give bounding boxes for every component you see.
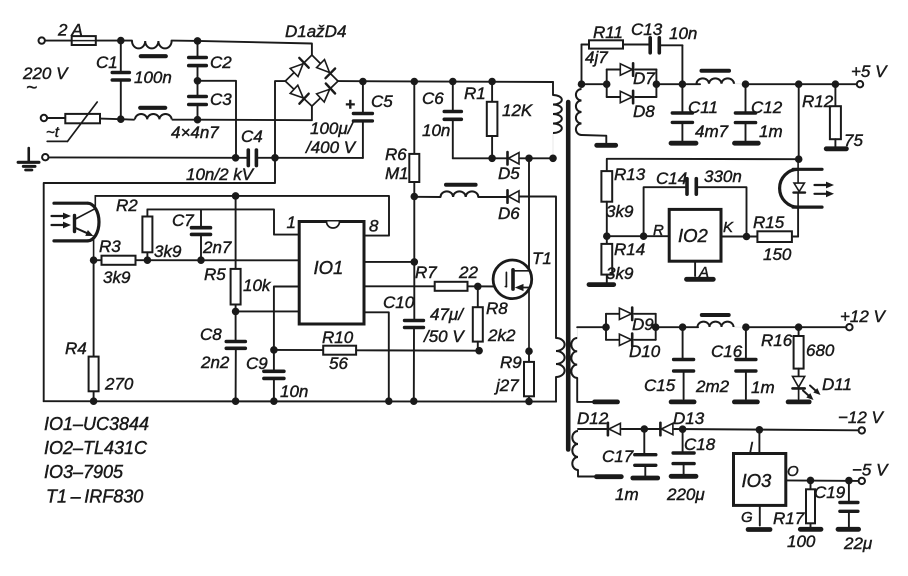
- node FB corner: [795, 155, 803, 163]
- svg-text:2n7: 2n7: [202, 238, 232, 257]
- transformer -12V winding: [572, 429, 578, 470]
- inductor L3 5V choke: [697, 78, 746, 84]
- wire chassis line: [49, 156, 236, 158]
- capacitor C2: [189, 41, 233, 81]
- label +12V: [840, 307, 887, 326]
- svg-text:D1ažD4: D1ažD4: [285, 22, 346, 41]
- ground bar C19: [838, 527, 859, 532]
- legend line 2: [44, 438, 148, 458]
- resistor R17 100: [773, 480, 816, 551]
- core bar choke bottom: [140, 106, 165, 110]
- node D7D8 left: [603, 80, 611, 88]
- core bar L4: [702, 313, 729, 317]
- node fuse/C1 junction: [117, 37, 125, 45]
- svg-text:3k9: 3k9: [606, 202, 634, 221]
- pin 1 label: [287, 213, 296, 232]
- node R6 top: [411, 78, 419, 86]
- resistor R14 3k9: [601, 236, 645, 283]
- svg-text:C3: C3: [210, 90, 232, 109]
- svg-text:C13: C13: [631, 20, 663, 39]
- svg-text:C1: C1: [96, 53, 118, 72]
- node R5 bottom RT/CT: [232, 308, 240, 316]
- wire D7D8 right stub: [655, 70, 657, 98]
- wire primary ground rail: [44, 400, 556, 402]
- node C19 top: [845, 477, 853, 485]
- node FB takeoff: [795, 80, 803, 88]
- inductor L2 Vcc choke: [414, 191, 507, 197]
- ground bar C11: [671, 141, 696, 146]
- svg-text:T1 – IRF830: T1 – IRF830: [46, 487, 143, 507]
- svg-text:D7: D7: [633, 69, 655, 88]
- svg-text:D9: D9: [632, 315, 654, 334]
- node R8 top: [474, 283, 482, 291]
- node C6 top: [449, 78, 457, 86]
- diode D5: [498, 152, 520, 183]
- svg-text:−5 V: −5 V: [852, 461, 889, 480]
- svg-text:R17: R17: [773, 509, 805, 528]
- svg-text:330n: 330n: [704, 167, 742, 186]
- ground chassis symbol: [18, 148, 39, 170]
- resistor R3 3k9: [99, 237, 136, 287]
- wire LED cathode: [797, 207, 799, 237]
- svg-text:100μ/: 100μ/: [310, 119, 355, 138]
- terminal +12V: [846, 324, 852, 330]
- wire top AC to bridge: [198, 41, 312, 55]
- wire OUT pin to R7: [364, 285, 435, 287]
- wire 12V node to rect: [577, 326, 606, 328]
- svg-text:2k2: 2k2: [487, 326, 516, 345]
- wire FB vertical: [798, 84, 800, 159]
- capacitor C10 47u/50V: [383, 262, 465, 401]
- svg-text:C7: C7: [172, 211, 194, 230]
- capacitor C4 10n/2kV: [186, 127, 275, 184]
- diode D12: [577, 409, 620, 435]
- svg-text:R11: R11: [593, 23, 623, 42]
- svg-text:2 A: 2 A: [57, 21, 83, 40]
- wire R5 feed: [235, 196, 237, 269]
- resistor R2 3k9: [116, 196, 182, 261]
- transformer core: [566, 102, 571, 450]
- wire IO3 input pin: [758, 430, 760, 454]
- capacitor C18 220u: [666, 429, 716, 504]
- svg-text:3k9: 3k9: [606, 264, 634, 283]
- svg-text:D11: D11: [822, 375, 852, 394]
- wire opto collector to A: [95, 195, 235, 197]
- capacitor C16 1m: [711, 327, 775, 399]
- wire RTCT pin: [236, 310, 300, 312]
- svg-text:3k9: 3k9: [103, 268, 131, 287]
- svg-text:R15: R15: [753, 213, 785, 232]
- svg-text:D5: D5: [498, 164, 520, 183]
- node C7 bottom: [197, 256, 205, 264]
- resistor R8 2k2: [473, 286, 516, 350]
- capacitor C17 1m: [602, 429, 656, 504]
- node C4 left junction: [232, 154, 240, 162]
- node R3 left: [90, 256, 98, 264]
- node R13 R14 junction: [603, 232, 611, 240]
- svg-text:R1: R1: [464, 84, 486, 103]
- resistor R5 10k: [204, 265, 272, 311]
- pin label I: [749, 439, 753, 456]
- svg-text:G: G: [741, 509, 753, 526]
- transformer feedback winding: [556, 338, 565, 377]
- svg-text:150: 150: [763, 245, 792, 264]
- svg-text:+5 V: +5 V: [851, 62, 888, 81]
- wire winding to D12: [578, 428, 608, 430]
- resistor R10 56: [274, 328, 479, 373]
- node R1 top: [488, 78, 496, 86]
- svg-text:R2: R2: [116, 196, 138, 215]
- svg-text:~: ~: [26, 78, 37, 99]
- wire FB divider line: [94, 259, 300, 261]
- wire -12V winding gnd: [578, 470, 596, 477]
- capacitor C1 100n: [96, 41, 172, 120]
- input terminal N (bottom): [41, 115, 47, 121]
- legend line 4: [46, 487, 143, 507]
- IC IO1 UC3844 box: [299, 222, 364, 325]
- transformer primary winding: [553, 95, 562, 158]
- wire D9D10 right stub: [655, 314, 657, 340]
- resistor R9 j27: [494, 351, 534, 401]
- wire D9D10 left stub: [605, 314, 607, 340]
- diode D10: [606, 334, 661, 361]
- legend line 1: [44, 414, 149, 434]
- label T1: [532, 249, 552, 268]
- terminal -5V: [859, 478, 865, 484]
- pin label R: [653, 222, 664, 239]
- ground bar IO2 A: [687, 277, 714, 282]
- wire bridge plus rail: [338, 81, 553, 95]
- wire D13 to rail: [674, 429, 858, 430]
- node C15 top: [679, 323, 687, 331]
- wire choke to C3 node: [173, 119, 198, 121]
- svg-text:56: 56: [329, 354, 348, 373]
- capacitor C14 330n: [644, 167, 747, 237]
- svg-text:680: 680: [806, 341, 835, 360]
- wire K pin line: [721, 236, 757, 238]
- node T1 source junction: [525, 347, 533, 355]
- thermistor -t: [46, 102, 100, 141]
- node R16 top: [795, 323, 803, 331]
- svg-text:10n: 10n: [422, 121, 450, 140]
- svg-text:1m: 1m: [751, 378, 775, 397]
- resistor R4 270: [65, 260, 134, 401]
- svg-text:K: K: [723, 219, 734, 236]
- node thermistor/C1 junction: [117, 115, 125, 123]
- diode D13: [660, 409, 704, 435]
- node C18 top: [679, 425, 687, 433]
- ground bar C18: [671, 474, 696, 479]
- node D7D8 right: [653, 80, 661, 88]
- svg-text:~t: ~t: [46, 124, 60, 141]
- svg-text:C9: C9: [246, 354, 268, 373]
- resistor R11 4j7: [582, 23, 649, 84]
- wire choke to C2 node: [172, 40, 198, 42]
- node C2 top: [194, 37, 202, 45]
- node D5 anode / drain: [525, 155, 533, 163]
- capacitor C9 10n: [246, 350, 308, 401]
- svg-text:10n/2 kV: 10n/2 kV: [186, 165, 255, 184]
- svg-text:10k: 10k: [243, 276, 272, 295]
- svg-text:D10: D10: [629, 342, 661, 361]
- input terminal L (top): [39, 37, 45, 43]
- svg-text:C18: C18: [684, 435, 716, 454]
- svg-text:R: R: [653, 222, 664, 239]
- wire G pin: [759, 505, 761, 525]
- capacitor C19 22u: [814, 481, 873, 553]
- svg-text:D12: D12: [577, 409, 609, 428]
- resistor R7 22: [415, 263, 505, 291]
- svg-text:O: O: [787, 463, 799, 480]
- svg-text:220μ: 220μ: [666, 485, 705, 504]
- svg-text:−12 V: −12 V: [838, 408, 885, 427]
- wire bridge minus out: [275, 81, 285, 158]
- node C12 top: [742, 80, 750, 88]
- optocoupler phototransistor: [52, 196, 99, 260]
- pin label K: [723, 219, 734, 236]
- svg-text:IO3–7905: IO3–7905: [44, 462, 124, 482]
- capacitor C8 2n2: [200, 311, 245, 401]
- svg-text:R6: R6: [385, 145, 407, 164]
- node C4 right / bridge minus: [271, 154, 279, 162]
- wire pin1 comp line: [147, 209, 299, 234]
- svg-text:100: 100: [787, 532, 816, 551]
- label +5V: [851, 62, 888, 81]
- pin label O: [787, 463, 799, 480]
- wire top AC line: [45, 40, 121, 42]
- core bar L2: [446, 183, 476, 187]
- core bar L3: [702, 69, 730, 73]
- svg-text:10n: 10n: [280, 382, 308, 401]
- capacitor C12 1m: [735, 84, 782, 141]
- svg-text:22: 22: [458, 263, 478, 282]
- ground bar C15: [671, 399, 694, 404]
- node R2 bottom: [144, 256, 152, 264]
- node R4 gnd: [90, 397, 98, 405]
- wire D7D8 left stub: [606, 70, 608, 98]
- node C8 gnd: [232, 397, 240, 405]
- svg-text:C11: C11: [688, 98, 718, 117]
- resistor R16 680: [761, 327, 835, 376]
- svg-text:C17: C17: [602, 447, 634, 466]
- wire C1col: [121, 118, 134, 121]
- wire 5V rail: [746, 83, 857, 85]
- wire D5 clamp line: [453, 157, 553, 159]
- wire Vref to pin8: [236, 196, 389, 236]
- ground bar C17: [633, 476, 658, 481]
- resistor R13 3k9: [601, 165, 645, 236]
- capacitor C13 10n: [631, 20, 697, 84]
- svg-text:R5: R5: [204, 265, 226, 284]
- wire CS pin branch: [274, 287, 299, 350]
- wire HV minus down-left: [44, 158, 275, 401]
- IC IO3 7905 box: [734, 454, 786, 506]
- svg-text:+12 V: +12 V: [840, 307, 887, 326]
- svg-text:8: 8: [369, 217, 379, 236]
- node IO3 input: [756, 426, 764, 434]
- transformer +5V winding: [576, 84, 582, 135]
- node R9 bottom: [525, 398, 533, 406]
- svg-text:IO2–TL431C: IO2–TL431C: [44, 438, 148, 458]
- capacitor C5 100u/400V: [305, 82, 393, 158]
- node R17 top: [807, 477, 815, 485]
- inductor L1a common-mode choke top winding: [132, 41, 172, 48]
- label -12V: [838, 408, 885, 427]
- svg-text:R14: R14: [614, 240, 645, 259]
- svg-text:R16: R16: [761, 331, 793, 350]
- wire Vcc vertical: [413, 197, 415, 262]
- svg-text:C10: C10: [383, 293, 415, 312]
- ground bar C12: [735, 141, 759, 146]
- node C2/C3 midpoint: [194, 77, 202, 85]
- node C14 right branch: [743, 233, 751, 241]
- resistor R6 M1: [385, 82, 419, 197]
- svg-text:100n: 100n: [134, 68, 172, 87]
- ground bar 12V winding: [595, 399, 618, 404]
- svg-text:/50 V: /50 V: [423, 327, 465, 346]
- resistor R15 150: [753, 213, 798, 264]
- svg-text:C2: C2: [210, 53, 232, 72]
- label D1azD4: [285, 22, 346, 41]
- wire A pin: [694, 261, 696, 276]
- diode D6: [498, 190, 520, 223]
- wire R pin line: [607, 235, 669, 237]
- wire D12 to D13: [622, 428, 661, 430]
- capacitor C15 2m2: [644, 327, 730, 399]
- svg-text:C15: C15: [644, 376, 676, 395]
- ground bar 5V winding: [597, 143, 616, 148]
- label -5V: [852, 461, 889, 480]
- svg-text:IO1: IO1: [314, 257, 344, 278]
- node D9D10 left: [602, 323, 610, 331]
- terminal -12V: [859, 427, 865, 433]
- wire 5V winding to gnd: [582, 135, 607, 143]
- svg-text:4m7: 4m7: [695, 122, 729, 141]
- svg-text:j27: j27: [494, 376, 519, 395]
- svg-text:270: 270: [104, 375, 134, 394]
- svg-text:C12: C12: [751, 98, 783, 117]
- diode D9: [606, 308, 656, 334]
- wire 5V node to rect: [582, 83, 607, 85]
- wire fb winding to gnd rail: [555, 377, 557, 402]
- svg-text:C14: C14: [656, 169, 687, 188]
- node Vcc pin junction: [411, 258, 419, 266]
- label 220V: [22, 64, 69, 99]
- wire gnd pin branch: [364, 312, 389, 401]
- pin 8 label: [369, 217, 379, 236]
- svg-text:T1: T1: [532, 249, 552, 268]
- core bar choke top: [141, 54, 166, 58]
- ground bar -12V winding: [596, 474, 621, 479]
- transformer +12V winding: [571, 327, 577, 378]
- pin label G: [741, 509, 753, 526]
- svg-text:D6: D6: [498, 204, 520, 223]
- ground bar C16: [734, 399, 757, 404]
- ground bar D11: [788, 399, 809, 404]
- node primary bottom: [549, 155, 557, 163]
- bridge rectifier D1..D4: [285, 55, 338, 106]
- IC IO2 TL431C box: [669, 209, 721, 261]
- wire 12V winding gnd: [577, 378, 594, 402]
- svg-text:+: +: [345, 95, 355, 114]
- node R6 bottom / aux node: [411, 193, 419, 201]
- svg-text:3k9: 3k9: [154, 242, 182, 261]
- svg-text:1: 1: [287, 213, 296, 232]
- svg-text:4j7: 4j7: [585, 48, 608, 67]
- node IC gnd: [385, 397, 393, 405]
- svg-text:C16: C16: [711, 342, 743, 361]
- svg-text:R4: R4: [65, 339, 87, 358]
- terminal chassis: [42, 154, 48, 160]
- capacitor C6 10n: [422, 82, 461, 159]
- wire Ycap mid to chassis: [198, 81, 237, 158]
- svg-text:C5: C5: [371, 92, 393, 111]
- capacitor C7 2n7: [172, 209, 232, 260]
- svg-text:C8: C8: [200, 325, 222, 344]
- svg-text:D8: D8: [633, 102, 655, 121]
- ground bar IO3 G: [748, 527, 770, 532]
- node R12 top: [832, 80, 840, 88]
- diode D8: [607, 91, 657, 121]
- node C17 top: [641, 425, 649, 433]
- fuse F1 2A: [57, 21, 96, 46]
- node D9D10 right: [652, 323, 660, 331]
- svg-text:R12: R12: [802, 92, 834, 111]
- label 4x4n7: [171, 123, 219, 142]
- LED D11: [793, 375, 852, 400]
- svg-text:10n: 10n: [669, 24, 697, 43]
- svg-text:1m: 1m: [615, 485, 639, 504]
- svg-text:C6: C6: [422, 89, 444, 108]
- node C16 top: [742, 323, 750, 331]
- wire bottom AC line: [47, 118, 121, 119]
- wire rect to choke 12V: [656, 326, 698, 328]
- node R8 bottom: [475, 347, 483, 355]
- node C11 top: [679, 80, 687, 88]
- node C10 gnd: [410, 397, 418, 405]
- node C9 gnd: [270, 397, 278, 405]
- svg-text:47μ/: 47μ/: [430, 305, 465, 324]
- wire FB to R13: [607, 159, 799, 171]
- node C14 left branch: [640, 232, 648, 240]
- svg-text:2n2: 2n2: [200, 353, 230, 372]
- svg-text:M1: M1: [385, 164, 409, 183]
- svg-text:/400 V: /400 V: [305, 138, 357, 157]
- svg-text:R9: R9: [500, 353, 522, 372]
- svg-text:22μ: 22μ: [843, 534, 873, 553]
- svg-text:R7: R7: [415, 263, 437, 282]
- wire 12V rail: [746, 326, 846, 328]
- ground bar R14: [589, 282, 614, 287]
- optocoupler LED: [780, 159, 834, 207]
- pin label A: [698, 264, 709, 281]
- svg-text:R3: R3: [99, 237, 121, 256]
- svg-text:1m: 1m: [759, 122, 783, 141]
- svg-text:C19: C19: [814, 483, 846, 502]
- wire drain vertical: [528, 158, 530, 270]
- node R1 bottom: [488, 155, 496, 163]
- node junction A Vref: [232, 192, 240, 200]
- node 5V winding top: [578, 80, 586, 88]
- node CS filter junction: [270, 346, 278, 354]
- wire C1 to choke: [121, 40, 132, 42]
- wire bottom AC to bridge: [198, 106, 312, 120]
- svg-text:IO2: IO2: [678, 225, 709, 246]
- capacitor C11 4m7: [672, 84, 728, 141]
- ground bar R12: [826, 146, 846, 151]
- inductor L4 12V choke: [698, 322, 746, 328]
- svg-text:4×4n7: 4×4n7: [171, 123, 219, 142]
